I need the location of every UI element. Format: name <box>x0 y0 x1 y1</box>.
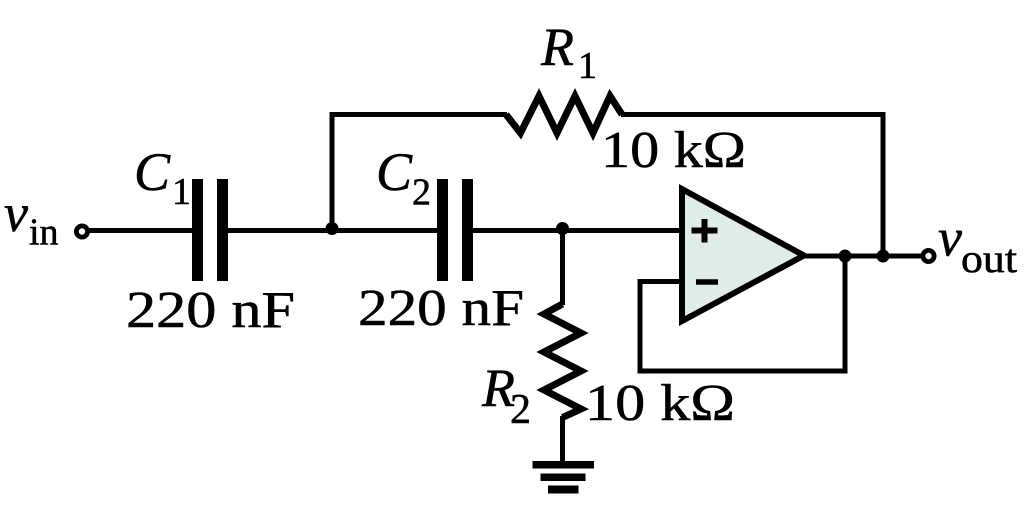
capacitor C1 plates <box>192 179 203 281</box>
wire C2 to node B and op-amp + input <box>472 228 681 233</box>
node D junction dot <box>877 250 890 263</box>
ground <box>533 461 595 494</box>
terminal vout open circle <box>923 250 934 261</box>
op-amp U1 triangle <box>682 189 804 321</box>
svg-text:v: v <box>4 183 28 243</box>
svg-text:1: 1 <box>172 171 191 213</box>
wire op-amp output to vout terminal <box>804 254 921 259</box>
svg-text:v: v <box>938 208 962 268</box>
wire node A to C2 <box>330 228 438 233</box>
wire input vin to C1 <box>86 228 193 233</box>
wire R1 to right riser <box>621 112 886 117</box>
node B junction dot <box>556 222 569 235</box>
capacitor C2 plates <box>437 179 448 281</box>
svg-text:out: out <box>961 236 1017 281</box>
wire right riser down to output node D <box>881 112 886 256</box>
resistor R1 zigzag <box>506 96 622 133</box>
node A junction dot <box>326 222 339 235</box>
svg-text:10 kΩ: 10 kΩ <box>601 122 746 179</box>
op-amp minus input symbol <box>696 279 718 285</box>
svg-text:220 nF: 220 nF <box>126 282 295 339</box>
wire node B down to R2 <box>560 229 565 306</box>
node C junction dot <box>839 250 852 263</box>
svg-text:2: 2 <box>412 172 431 214</box>
svg-text:2: 2 <box>510 387 531 433</box>
svg-text:C: C <box>134 142 171 202</box>
wire feedback: node C down, left, up to inverting input <box>640 256 845 371</box>
resistor R2 zigzag <box>544 304 581 418</box>
terminal vin open circle <box>76 226 87 237</box>
svg-text:R: R <box>540 17 574 77</box>
wire top rail left to R1 <box>330 112 508 117</box>
svg-text:in: in <box>29 212 59 254</box>
svg-text:220 nF: 220 nF <box>358 280 524 337</box>
wire R2 to ground <box>560 416 565 463</box>
svg-text:10 kΩ: 10 kΩ <box>585 375 735 432</box>
op-amp plus input symbol <box>692 219 718 243</box>
wire C1 to node A <box>227 228 334 233</box>
svg-text:1: 1 <box>578 45 597 87</box>
svg-text:C: C <box>376 142 413 202</box>
wire riser node A up to top rail <box>330 112 335 233</box>
